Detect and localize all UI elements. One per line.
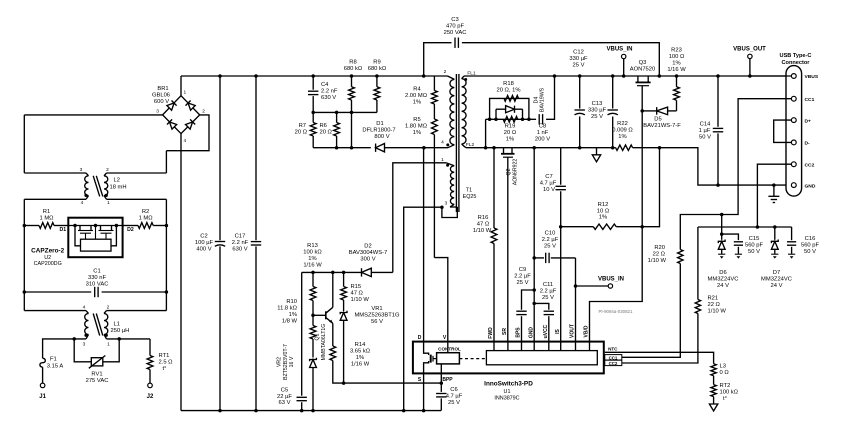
- svg-text:1/16 W: 1/16 W: [351, 362, 370, 368]
- svg-text:2.2 µF: 2.2 µF: [514, 274, 531, 280]
- svg-text:C5: C5: [281, 387, 288, 393]
- svg-text:3: 3: [83, 342, 86, 348]
- inductor L2 common-mode choke: [24, 172, 86, 174]
- wire: bias pin1 to D2 node: [393, 163, 446, 273]
- svg-text:VBUS_OUT: VBUS_OUT: [733, 46, 766, 52]
- svg-text:C9: C9: [519, 267, 526, 273]
- svg-text:R7: R7: [299, 123, 306, 129]
- svg-text:EQ25: EQ25: [463, 194, 477, 200]
- svg-text:C14: C14: [700, 122, 711, 128]
- IC U1 InnoSwitch3-PD block: [413, 342, 604, 374]
- svg-text:Q2: Q2: [506, 168, 512, 175]
- resistor R15: [343, 272, 345, 286]
- capacitor C15: [734, 241, 743, 243]
- capacitor C4: [311, 74, 315, 78]
- svg-text:4.7 µF: 4.7 µF: [540, 181, 557, 187]
- svg-text:300 V: 300 V: [360, 257, 375, 263]
- wire: CC2 route: [757, 164, 791, 227]
- svg-text:63 V: 63 V: [279, 400, 291, 406]
- capacitor C16: [791, 227, 793, 240]
- svg-text:C1: C1: [93, 269, 100, 275]
- svg-text:25 V: 25 V: [517, 280, 529, 286]
- svg-text:0 Ω: 0 Ω: [720, 370, 730, 376]
- svg-text:R6: R6: [320, 123, 327, 129]
- svg-text:47 Ω: 47 Ω: [477, 222, 490, 228]
- resistor R12 IS sense: [559, 225, 563, 229]
- svg-text:22 µF: 22 µF: [277, 394, 292, 400]
- svg-text:2.00 MΩ: 2.00 MΩ: [405, 93, 428, 99]
- svg-text:C4: C4: [321, 82, 329, 88]
- svg-text:R8: R8: [349, 60, 356, 66]
- svg-text:U2: U2: [44, 255, 51, 261]
- connector J2: [148, 383, 153, 388]
- wire: right EMI rail lower: [165, 199, 167, 310]
- svg-text:1%: 1%: [289, 312, 297, 318]
- resistor R7: [312, 112, 314, 122]
- zener VR1: [340, 311, 347, 315]
- svg-text:D: D: [418, 335, 422, 341]
- svg-text:250 VAC: 250 VAC: [444, 30, 467, 36]
- svg-text:D4: D4: [533, 97, 539, 104]
- svg-text:NTC: NTC: [608, 347, 618, 352]
- capacitor C12: [578, 74, 582, 78]
- svg-text:4: 4: [183, 138, 186, 144]
- svg-text:t°: t°: [163, 366, 167, 372]
- svg-text:R2: R2: [142, 209, 149, 215]
- wire: VBUS pin: [750, 75, 791, 77]
- snubber R18 R19 D4 C8: [485, 119, 487, 147]
- svg-text:C6: C6: [450, 387, 457, 393]
- svg-text:1%: 1%: [506, 137, 514, 143]
- svg-text:uVCC: uVCC: [543, 324, 549, 338]
- CAPZero internal FET right: [100, 226, 102, 231]
- capacitor C13: [611, 74, 615, 78]
- svg-text:C11: C11: [543, 282, 553, 288]
- wire: secondary top rail: [464, 75, 791, 77]
- svg-text:1 MΩ: 1 MΩ: [40, 216, 55, 222]
- svg-text:3.15 A: 3.15 A: [47, 363, 64, 369]
- svg-text:F1: F1: [50, 357, 57, 363]
- node A wire (clamp): [313, 111, 377, 113]
- wire: BR1 pin1 to top rail: [180, 76, 182, 96]
- svg-text:16 V: 16 V: [289, 356, 295, 367]
- svg-text:25 V: 25 V: [573, 63, 585, 69]
- wire: output gnd route: [660, 148, 792, 185]
- svg-text:400 V: 400 V: [196, 247, 211, 253]
- transformer T1 secondary winding: [462, 76, 464, 79]
- wire: NTC route: [605, 352, 714, 364]
- node VBUS_OUT flag: [748, 74, 752, 78]
- svg-text:RT2: RT2: [720, 383, 731, 389]
- wire: D+ D- short: [774, 120, 792, 142]
- svg-text:275 VAC: 275 VAC: [86, 378, 109, 384]
- svg-text:CC1: CC1: [805, 97, 815, 103]
- IC inner block: [486, 351, 597, 365]
- svg-text:PI-9094a-030821: PI-9094a-030821: [599, 309, 633, 314]
- svg-text:3: 3: [445, 201, 448, 207]
- clamp D6 C15 junction: [721, 215, 723, 240]
- svg-text:VR2: VR2: [277, 357, 283, 367]
- IC U2 CAPZero-2 block: [68, 218, 122, 258]
- svg-text:25 V: 25 V: [448, 400, 460, 406]
- wire: VOUT column: [575, 258, 577, 342]
- node VBUS_IN flag at VOUT: [574, 284, 578, 288]
- svg-text:U1: U1: [504, 389, 511, 395]
- svg-text:VBUS_IN: VBUS_IN: [598, 277, 624, 283]
- svg-text:50 V: 50 V: [748, 249, 760, 255]
- svg-text:2.2 µF: 2.2 µF: [540, 289, 557, 295]
- svg-text:56 V: 56 V: [371, 319, 383, 325]
- svg-text:R22: R22: [617, 121, 628, 127]
- svg-text:MMBTA06LT1G: MMBTA06LT1G: [321, 324, 327, 361]
- svg-text:INN3879C: INN3879C: [494, 396, 519, 402]
- inductor L1 common-mode choke: [24, 310, 86, 312]
- svg-text:R10: R10: [286, 299, 297, 305]
- svg-text:DFLR1800-7: DFLR1800-7: [362, 128, 395, 134]
- svg-text:4: 4: [83, 305, 86, 311]
- svg-text:C12: C12: [573, 50, 584, 56]
- svg-text:D1: D1: [59, 227, 66, 233]
- svg-text:330 µF: 330 µF: [569, 56, 588, 62]
- resistor R8: [350, 74, 354, 78]
- IC NTC CC boxes: [605, 355, 622, 360]
- svg-text:D5: D5: [654, 117, 661, 123]
- svg-text:FWD: FWD: [488, 327, 494, 339]
- svg-text:AON7520: AON7520: [630, 67, 655, 73]
- svg-text:BAV3004WS-7: BAV3004WS-7: [349, 250, 388, 256]
- svg-text:1/8 W: 1/8 W: [282, 319, 298, 325]
- transformer T1 primary winding: [448, 76, 455, 79]
- resistor R14: [332, 323, 334, 346]
- svg-text:22 Ω: 22 Ω: [708, 302, 721, 308]
- svg-text:T1: T1: [466, 188, 472, 194]
- svg-text:24 V: 24 V: [771, 283, 783, 289]
- capacitor C6 on BPP: [440, 373, 442, 392]
- svg-text:20 Ω: 20 Ω: [320, 130, 333, 136]
- svg-text:10 V: 10 V: [543, 187, 555, 193]
- wire: CC1 route: [680, 99, 791, 250]
- resistor R1: [23, 224, 27, 228]
- wire: secondary gnd rail: [466, 147, 616, 149]
- wire: BR1 pin2 return: [166, 115, 209, 151]
- connector pin CC1: [791, 96, 796, 101]
- svg-text:20 Ω: 20 Ω: [504, 130, 517, 136]
- svg-text:C8: C8: [539, 124, 546, 130]
- svg-text:L1: L1: [114, 321, 120, 327]
- svg-text:2: 2: [107, 305, 110, 311]
- svg-text:R21: R21: [708, 296, 719, 302]
- wire: L2 bottom row: [24, 198, 86, 200]
- svg-text:25 V: 25 V: [542, 295, 554, 301]
- svg-text:1/10 W: 1/10 W: [351, 297, 370, 303]
- svg-text:R12: R12: [598, 202, 609, 208]
- svg-text:D7: D7: [773, 270, 780, 276]
- svg-text:470 pF: 470 pF: [446, 24, 465, 30]
- svg-text:1%: 1%: [356, 355, 364, 361]
- svg-text:RV1: RV1: [91, 371, 102, 377]
- svg-text:330 µF: 330 µF: [588, 108, 607, 114]
- svg-text:D2: D2: [364, 244, 371, 250]
- svg-text:630 V: 630 V: [232, 247, 247, 253]
- resistors R4 R5 line sense: [433, 76, 435, 91]
- svg-text:1 µF: 1 µF: [699, 128, 711, 134]
- wire: BR1 pin3 to left rail: [24, 114, 162, 116]
- resistor R22 shunt: [616, 145, 633, 150]
- IC CONTROL box: [437, 353, 460, 364]
- connector pin CC1 (lower): [791, 162, 796, 167]
- capacitor C11 on uVCC: [548, 316, 550, 341]
- wire: left EMI rail upper: [23, 115, 25, 173]
- transistor Q1: [325, 311, 327, 319]
- svg-text:1/10 W: 1/10 W: [708, 309, 727, 315]
- svg-text:1%: 1%: [413, 130, 421, 136]
- svg-text:1: 1: [107, 200, 110, 206]
- svg-text:1%: 1%: [308, 256, 316, 262]
- capacitor C10 GND to VOUT: [532, 256, 536, 260]
- connector J1: [40, 383, 45, 388]
- wire: bias node: [302, 271, 393, 273]
- svg-text:R18: R18: [503, 81, 514, 87]
- connector pin D-: [791, 140, 796, 145]
- svg-text:VBUS: VBUS: [805, 74, 819, 80]
- svg-text:50 V: 50 V: [699, 135, 711, 141]
- svg-text:2.5 Ω: 2.5 Ω: [159, 359, 174, 365]
- capacitor C1: [23, 290, 27, 294]
- svg-text:C16: C16: [805, 236, 816, 242]
- svg-text:250 µH: 250 µH: [111, 328, 130, 334]
- svg-text:100 kΩ: 100 kΩ: [303, 250, 322, 256]
- CAPZero internal FET left: [79, 226, 81, 231]
- wire: CAPZero internal rail: [68, 225, 122, 227]
- svg-text:R23: R23: [671, 48, 682, 54]
- wire: BR1 pin4 DC- bus: [180, 134, 182, 411]
- svg-text:25 V: 25 V: [591, 114, 603, 120]
- svg-text:18 mH: 18 mH: [110, 185, 127, 191]
- wire: BPP stub from CONTROL box: [440, 364, 442, 374]
- svg-text:BR1: BR1: [157, 86, 168, 92]
- svg-text:C17: C17: [235, 234, 246, 240]
- MOSFET Q2 sync rectifier: [503, 148, 505, 154]
- svg-text:2.2 µF: 2.2 µF: [542, 237, 559, 243]
- svg-text:100 Ω: 100 Ω: [669, 54, 685, 60]
- wire: fuse to L1 bottom row: [43, 339, 86, 358]
- svg-text:Q3: Q3: [639, 60, 647, 66]
- wire: bias pin3 to primary gnd: [404, 207, 442, 410]
- thermistor RT2: [713, 376, 715, 385]
- svg-text:L2: L2: [114, 178, 120, 184]
- svg-text:3: 3: [80, 167, 83, 173]
- wire: CC2 bus: [698, 226, 792, 228]
- svg-text:CAP200DG: CAP200DG: [34, 261, 62, 267]
- svg-text:3: 3: [156, 109, 159, 115]
- resistor R21 on CC2: [697, 227, 699, 300]
- capacitor C9 on BPS: [521, 316, 523, 341]
- svg-text:1%: 1%: [413, 100, 421, 106]
- svg-text:1: 1: [441, 157, 444, 163]
- svg-text:D+: D+: [805, 118, 812, 124]
- svg-text:J1: J1: [39, 394, 46, 400]
- svg-text:4.7 µF: 4.7 µF: [446, 393, 463, 399]
- svg-text:BAV21WS-7-F: BAV21WS-7-F: [643, 123, 681, 129]
- svg-text:560 pF: 560 pF: [801, 243, 820, 249]
- wire: VB/D to Q3 gate column: [590, 86, 643, 342]
- svg-text:4: 4: [441, 139, 444, 145]
- svg-text:VR1: VR1: [371, 306, 382, 312]
- svg-text:J2: J2: [147, 394, 154, 400]
- wire: left EMI rail lower: [23, 199, 25, 310]
- svg-text:600 V: 600 V: [154, 99, 169, 105]
- svg-text:MMSZ5263BT1G: MMSZ5263BT1G: [354, 313, 400, 319]
- resistor R20 on CC1: [678, 250, 683, 264]
- transformer T1 bias winding: [446, 163, 454, 166]
- svg-text:11.8 kΩ: 11.8 kΩ: [277, 306, 297, 312]
- wire: drain node: [385, 147, 449, 149]
- diode D5: [640, 109, 644, 113]
- svg-text:MM3Z24VC: MM3Z24VC: [708, 277, 739, 283]
- wire: L1 pin1 to RT1: [107, 338, 151, 340]
- svg-text:R1: R1: [43, 209, 50, 215]
- resistor R6: [336, 112, 338, 122]
- resistor R23: [675, 74, 679, 78]
- capacitor C14: [716, 74, 720, 78]
- IC pin stubs inside: [493, 342, 495, 351]
- diode D2: [362, 268, 372, 276]
- svg-text:25 V: 25 V: [544, 244, 556, 250]
- svg-text:BPP: BPP: [442, 377, 453, 383]
- svg-text:R20: R20: [654, 245, 665, 251]
- svg-text:2: 2: [106, 167, 109, 173]
- wire: V pin stub to CONTROL box: [447, 342, 449, 353]
- svg-text:C15: C15: [749, 236, 760, 242]
- svg-text:1 nF: 1 nF: [537, 130, 549, 136]
- svg-text:2.2 nF: 2.2 nF: [321, 89, 338, 95]
- svg-text:330 nF: 330 nF: [88, 275, 107, 281]
- svg-text:50 V: 50 V: [804, 249, 816, 255]
- svg-text:MM3Z24VC: MM3Z24VC: [761, 277, 792, 283]
- svg-text:1: 1: [183, 89, 186, 95]
- svg-text:C13: C13: [592, 101, 603, 107]
- CAPZero internal body box: [81, 239, 112, 251]
- svg-text:47 Ω: 47 Ω: [351, 291, 364, 297]
- wire: J1 to fuse: [42, 367, 44, 383]
- svg-text:GND: GND: [528, 327, 534, 339]
- ground output: [772, 183, 776, 187]
- thermistor RT1: [149, 339, 151, 356]
- capacitor C5: [301, 272, 303, 395]
- svg-text:R16: R16: [478, 215, 489, 221]
- resistor R13: [312, 272, 314, 286]
- svg-text:1/10 W: 1/10 W: [648, 258, 667, 264]
- svg-text:C10: C10: [545, 231, 556, 237]
- svg-text:4: 4: [81, 200, 84, 206]
- svg-text:InnoSwitch3-PD: InnoSwitch3-PD: [484, 381, 533, 388]
- IC dashed link: [459, 358, 486, 360]
- svg-text:C2: C2: [200, 234, 207, 240]
- svg-text:BZT52B3V0T-7: BZT52B3V0T-7: [283, 344, 289, 380]
- svg-text:R19: R19: [505, 124, 516, 130]
- wire: primary bottom rail: [181, 410, 441, 412]
- svg-text:560 pF: 560 pF: [745, 243, 764, 249]
- ground NTC: [709, 404, 717, 411]
- svg-text:RT1: RT1: [159, 353, 170, 359]
- MOSFET Q3 load switch: [637, 76, 639, 82]
- resistor R16 on FWD: [492, 146, 496, 150]
- resistor R10: [311, 314, 315, 318]
- svg-text:200 V: 200 V: [535, 137, 550, 143]
- svg-text:630 V: 630 V: [321, 95, 336, 101]
- diode D1: [376, 144, 385, 152]
- connector pin VBUS: [791, 74, 796, 79]
- svg-text:22 Ω: 22 Ω: [653, 252, 666, 258]
- svg-text:D1: D1: [376, 121, 383, 127]
- svg-text:100 µF: 100 µF: [195, 240, 214, 246]
- transformer T1 core: [455, 74, 457, 212]
- ground secondary: [592, 155, 600, 162]
- svg-text:R15: R15: [351, 284, 362, 290]
- svg-text:CC2: CC2: [609, 361, 618, 366]
- resistor R9: [375, 74, 379, 78]
- svg-text:D6: D6: [719, 270, 726, 276]
- svg-text:680 kΩ: 680 kΩ: [368, 66, 387, 72]
- svg-text:VBUS_IN: VBUS_IN: [606, 47, 632, 53]
- wire: right EMI rail upper: [165, 151, 167, 173]
- svg-text:24 V: 24 V: [717, 283, 729, 289]
- svg-text:CAPZero-2: CAPZero-2: [31, 247, 64, 254]
- svg-text:BAV19WS: BAV19WS: [540, 87, 546, 112]
- IC internal MOSFET: [424, 342, 429, 355]
- node VBUS_IN flag top: [622, 74, 626, 78]
- svg-text:R9: R9: [373, 60, 380, 66]
- svg-text:CC1: CC1: [609, 355, 618, 360]
- svg-text:1%: 1%: [672, 61, 680, 67]
- svg-text:Q1: Q1: [315, 333, 321, 340]
- svg-text:Connector: Connector: [782, 60, 811, 66]
- svg-text:D-: D-: [805, 141, 811, 147]
- svg-text:CONTROL: CONTROL: [438, 347, 461, 352]
- capacitor C3: [422, 74, 426, 78]
- resistor R2: [165, 224, 169, 228]
- capacitor C2: [218, 74, 222, 78]
- svg-text:2: 2: [444, 69, 447, 75]
- inductor L3: [711, 364, 716, 376]
- svg-text:IS: IS: [555, 328, 561, 333]
- svg-text:20 Ω, 1%: 20 Ω, 1%: [497, 88, 521, 94]
- svg-text:R5: R5: [413, 117, 420, 123]
- wire: D pin column: [423, 148, 425, 342]
- zener D6: [718, 240, 725, 244]
- svg-text:1/16 W: 1/16 W: [667, 67, 686, 73]
- svg-text:CC2: CC2: [805, 162, 815, 168]
- svg-text:1%: 1%: [599, 215, 607, 221]
- svg-text:R13: R13: [307, 243, 318, 249]
- svg-text:VB/D: VB/D: [584, 325, 590, 337]
- svg-text:1/16 W: 1/16 W: [303, 263, 322, 269]
- svg-text:0.009 Ω: 0.009 Ω: [612, 128, 633, 134]
- connector pin GND: [791, 183, 796, 188]
- wire: S pin to gnd rail: [423, 373, 425, 410]
- svg-text:C7: C7: [545, 174, 552, 180]
- capacitor C7 and IS column: [560, 148, 562, 185]
- svg-text:GND: GND: [805, 183, 816, 189]
- svg-text:VOUT: VOUT: [570, 324, 576, 338]
- varistor RV1: [72, 337, 76, 341]
- capacitor C17: [254, 74, 258, 78]
- svg-text:2: 2: [202, 109, 205, 115]
- fuse F1: [40, 358, 45, 367]
- connector USB Type-C: [786, 66, 802, 197]
- svg-text:AON6R922: AON6R922: [512, 159, 518, 186]
- wire: GND column: [532, 146, 536, 150]
